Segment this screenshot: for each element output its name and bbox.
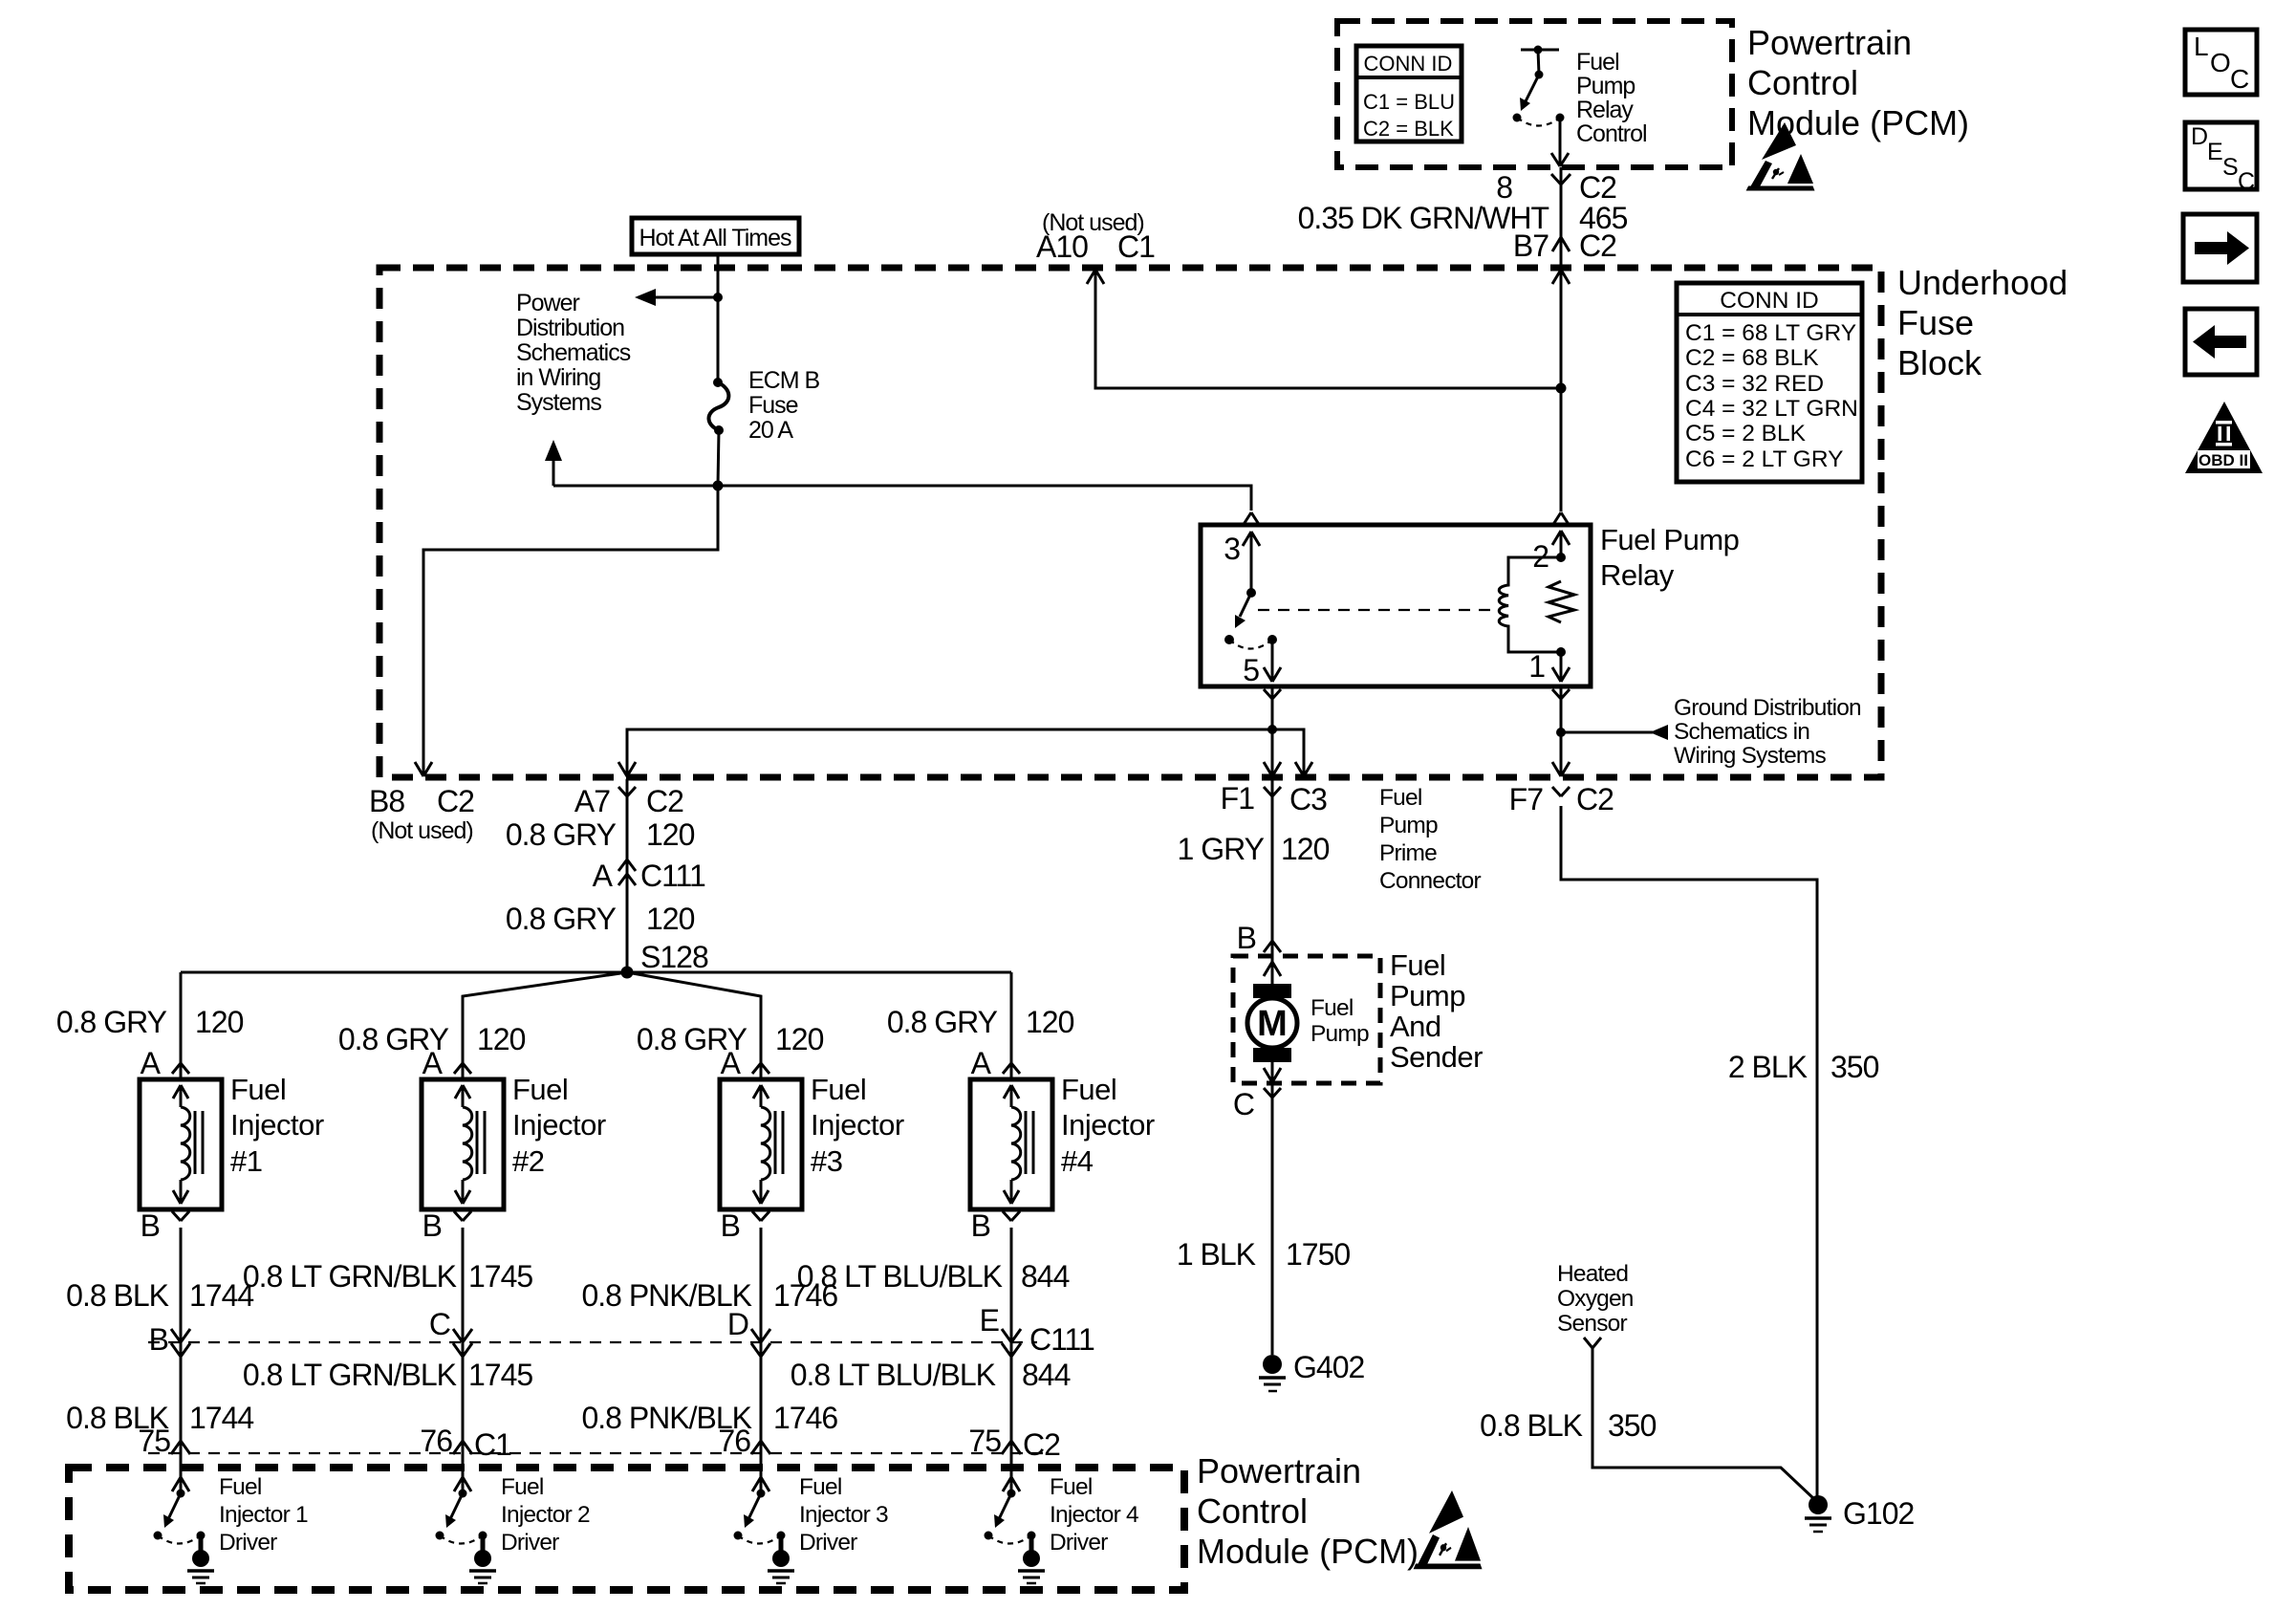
svg-text:C111: C111 bbox=[640, 859, 705, 893]
svg-text:Control: Control bbox=[1576, 120, 1647, 147]
label Fuel Pump (inside box) bbox=[1310, 995, 1369, 1047]
Fuel Pump Relay box bbox=[1201, 525, 1591, 686]
svg-text:Fuel: Fuel bbox=[799, 1474, 841, 1500]
wire oxygen sensor to G102 bbox=[1592, 1348, 1814, 1499]
splice S128 bbox=[621, 967, 634, 979]
svg-text:D: D bbox=[727, 1307, 748, 1341]
svg-text:C3: C3 bbox=[1289, 782, 1327, 816]
ground G102 bbox=[1805, 1495, 1831, 1532]
fuel injector #4 coil bbox=[1004, 1085, 1033, 1204]
arrow at F7 bbox=[1552, 762, 1570, 776]
svg-text:Distribution: Distribution bbox=[516, 315, 624, 341]
svg-text:A: A bbox=[422, 1046, 444, 1080]
svg-text:#3: #3 bbox=[811, 1144, 842, 1178]
svg-text:Driver: Driver bbox=[1050, 1530, 1108, 1556]
note Ground Distribution Schematics in Wiring Systems bbox=[1674, 695, 1861, 769]
label ECM B Fuse 20 A bbox=[748, 367, 820, 444]
label Fuel Pump Relay Control bbox=[1576, 49, 1647, 147]
svg-text:Injector 4: Injector 4 bbox=[1050, 1502, 1138, 1528]
svg-text:Fuel: Fuel bbox=[811, 1073, 866, 1106]
connector Y below pin 5 bbox=[1264, 689, 1281, 699]
svg-text:Fuel: Fuel bbox=[1390, 948, 1445, 982]
connector chevron at PCM pin 76 (x=484) bbox=[453, 1441, 472, 1454]
relay pin 3 bbox=[1224, 532, 1260, 593]
note Fuel Pump Prime Connector bbox=[1379, 785, 1481, 894]
svg-text:#1: #1 bbox=[230, 1144, 262, 1178]
connector Y at F1 bbox=[1264, 787, 1281, 796]
svg-text:B: B bbox=[422, 1208, 442, 1243]
CONN ID table (fuse block) bbox=[1677, 283, 1862, 482]
arrow into PCM (driver 3) bbox=[752, 1477, 769, 1491]
svg-text:B: B bbox=[971, 1208, 990, 1243]
svg-text:And: And bbox=[1390, 1010, 1441, 1043]
svg-text:A10: A10 bbox=[1036, 229, 1088, 264]
svg-text:Relay: Relay bbox=[1600, 558, 1675, 592]
svg-text:76: 76 bbox=[718, 1424, 750, 1458]
svg-text:Fuse: Fuse bbox=[748, 392, 798, 419]
svg-text:Control: Control bbox=[1747, 63, 1858, 102]
svg-text:120: 120 bbox=[775, 1022, 824, 1056]
wire label 1 GRY 120 bbox=[1178, 832, 1330, 866]
svg-text:Driver: Driver bbox=[799, 1530, 857, 1556]
relay switch contacts bbox=[1224, 635, 1277, 649]
wire label 0.8 BLK 350 bbox=[1480, 1408, 1656, 1443]
connector B (injector 4) bbox=[1003, 1211, 1020, 1221]
svg-text:Fuel: Fuel bbox=[512, 1073, 568, 1106]
svg-text:0.8 GRY: 0.8 GRY bbox=[506, 817, 617, 852]
svg-text:0.8 LT GRN/BLK: 0.8 LT GRN/BLK bbox=[243, 1259, 457, 1294]
svg-text:2 BLK: 2 BLK bbox=[1728, 1050, 1808, 1084]
wire pin 1 to F7 bbox=[1560, 686, 1563, 774]
svg-text:0.8 LT GRN/BLK: 0.8 LT GRN/BLK bbox=[243, 1358, 457, 1392]
junction dot F1 feed bbox=[1267, 725, 1277, 734]
svg-text:M: M bbox=[1257, 1004, 1288, 1044]
fuel injector #2 box bbox=[422, 1079, 504, 1209]
svg-text:C1 = 68 LT GRY: C1 = 68 LT GRY bbox=[1685, 320, 1856, 346]
connector chevron at PCM pin 75 (x=1058) bbox=[1002, 1441, 1021, 1454]
arrow into fuse block at B7 bbox=[1552, 270, 1570, 284]
fuel injector #3 box bbox=[720, 1079, 802, 1209]
junction dot below fuse bbox=[713, 481, 724, 491]
arrow at F1 bbox=[1264, 762, 1281, 776]
svg-text:1745: 1745 bbox=[468, 1259, 532, 1294]
svg-text:0.8 GRY: 0.8 GRY bbox=[506, 902, 617, 936]
fuel injector #1 coil bbox=[173, 1085, 203, 1204]
Underhood Fuse Block dashed box bbox=[379, 268, 1881, 777]
svg-text:B7: B7 bbox=[1513, 228, 1549, 263]
connector symbol at relay pin 2 bbox=[1552, 512, 1570, 526]
svg-text:ECM B: ECM B bbox=[748, 367, 820, 394]
connector symbol at relay pin 3 bbox=[1243, 512, 1260, 526]
svg-text:5: 5 bbox=[1243, 653, 1259, 687]
svg-text:(Not used): (Not used) bbox=[371, 817, 473, 844]
svg-text:O: O bbox=[2210, 48, 2231, 77]
relay coil bbox=[1499, 557, 1561, 652]
svg-text:Connector: Connector bbox=[1379, 868, 1481, 894]
wire label 0.8 LT BLU/BLK 844 (upper) bbox=[797, 1259, 1070, 1294]
svg-text:Pump: Pump bbox=[1390, 979, 1465, 1012]
title Powertrain Control Module (PCM) top bbox=[1747, 23, 1969, 142]
label Fuel Injector #4 bbox=[1061, 1073, 1155, 1178]
svg-text:C111: C111 bbox=[1029, 1322, 1094, 1357]
label Fuel Pump Relay bbox=[1600, 523, 1739, 592]
connector A (injector 3) bbox=[752, 1063, 769, 1074]
connector Y at C (fuel pump) bbox=[1264, 1088, 1281, 1098]
wire label 0.8 GRY 120 (injector 4) bbox=[887, 1005, 1074, 1039]
connector Y at oxygen sensor bbox=[1584, 1338, 1601, 1348]
svg-text:Injector: Injector bbox=[512, 1108, 606, 1142]
svg-text:Power: Power bbox=[516, 290, 580, 316]
wire fuel pump to G402 bbox=[1271, 1083, 1274, 1355]
wire F1 to fuel pump bbox=[1271, 779, 1274, 984]
svg-text:0.8 GRY: 0.8 GRY bbox=[887, 1005, 998, 1039]
wire A7 to S128 bbox=[626, 779, 629, 972]
wire label 0.8 GRY 120 (lower) bbox=[506, 902, 695, 936]
svg-text:Module (PCM): Module (PCM) bbox=[1197, 1532, 1419, 1571]
svg-text:A: A bbox=[141, 1046, 162, 1080]
svg-text:C3 = 32 RED: C3 = 32 RED bbox=[1685, 371, 1824, 397]
svg-text:Pump: Pump bbox=[1310, 1021, 1369, 1047]
svg-text:Prime: Prime bbox=[1379, 840, 1437, 866]
svg-text:C2: C2 bbox=[646, 784, 683, 818]
svg-text:L: L bbox=[2194, 32, 2209, 61]
svg-text:75: 75 bbox=[968, 1424, 1001, 1458]
svg-text:B: B bbox=[141, 1208, 160, 1243]
title Powertrain Control Module (PCM) bottom bbox=[1197, 1451, 1419, 1571]
svg-text:1744: 1744 bbox=[189, 1401, 253, 1435]
svg-text:B: B bbox=[1237, 921, 1256, 955]
svg-text:Wiring Systems: Wiring Systems bbox=[1674, 743, 1827, 769]
svg-text:1745: 1745 bbox=[468, 1358, 532, 1392]
arrow B8 bbox=[415, 762, 432, 776]
arrow into PCM (driver 2) bbox=[454, 1477, 471, 1491]
svg-text:S128: S128 bbox=[640, 940, 708, 974]
relay pin 2 bbox=[1532, 531, 1570, 574]
svg-text:1746: 1746 bbox=[773, 1401, 837, 1435]
connector A (injector 1) bbox=[172, 1063, 189, 1074]
relay pin 5 bbox=[1243, 640, 1281, 687]
svg-text:120: 120 bbox=[646, 817, 695, 852]
svg-text:C4 = 32 LT GRN: C4 = 32 LT GRN bbox=[1685, 396, 1858, 422]
wire label 0.8 PNK/BLK 1746 (lower) bbox=[581, 1401, 837, 1435]
svg-text:Oxygen: Oxygen bbox=[1557, 1286, 1634, 1312]
arrow into motor bbox=[1264, 962, 1281, 976]
svg-text:C2: C2 bbox=[1576, 782, 1614, 816]
svg-text:Schematics in: Schematics in bbox=[1674, 719, 1809, 745]
svg-text:E: E bbox=[2207, 139, 2222, 165]
wire label 0.8 BLK 1744 (lower) bbox=[66, 1401, 253, 1435]
svg-text:B8: B8 bbox=[369, 784, 404, 818]
connector A (injector 4) bbox=[1003, 1063, 1020, 1074]
relay resistor bbox=[1549, 581, 1574, 622]
connector B (injector 3) bbox=[752, 1211, 769, 1221]
fuel injector #4 box bbox=[970, 1079, 1052, 1209]
svg-text:Powertrain: Powertrain bbox=[1197, 1451, 1361, 1490]
inline connector A / C111 bbox=[618, 859, 636, 885]
driver 3 ground bbox=[768, 1535, 794, 1583]
wire label 0.8 GRY 120 (injector 3) bbox=[637, 1022, 824, 1056]
svg-text:Injector: Injector bbox=[230, 1108, 324, 1142]
wire hot feed down to fuse bbox=[717, 254, 720, 382]
connector Y below pin 1 bbox=[1552, 689, 1570, 699]
svg-text:844: 844 bbox=[1021, 1259, 1070, 1294]
wire branch to fuel pump prime connector bbox=[1272, 729, 1304, 774]
svg-text:Injector: Injector bbox=[1061, 1108, 1155, 1142]
svg-text:Underhood: Underhood bbox=[1897, 263, 2068, 302]
wire branch to A7 bbox=[627, 729, 1272, 774]
svg-text:C1 = BLU: C1 = BLU bbox=[1363, 90, 1455, 114]
icon DESC box bbox=[2185, 122, 2257, 195]
wire label 1 BLK 1750 bbox=[1177, 1237, 1351, 1272]
label Fuel Pump And Sender bbox=[1390, 948, 1483, 1074]
svg-text:C2: C2 bbox=[1023, 1427, 1060, 1462]
svg-text:Heated: Heated bbox=[1557, 1261, 1628, 1287]
wire injector 1 to PCM bbox=[180, 1228, 183, 1493]
svg-text:#2: #2 bbox=[512, 1144, 544, 1178]
svg-text:Sensor: Sensor bbox=[1557, 1311, 1627, 1337]
svg-text:350: 350 bbox=[1608, 1408, 1657, 1443]
relay switch arm bbox=[1235, 588, 1256, 628]
wire label 0.8 GRY 120 (injector 1) bbox=[56, 1005, 244, 1039]
svg-text:B: B bbox=[721, 1208, 740, 1243]
fuel injector #3 coil bbox=[753, 1085, 783, 1204]
svg-text:C2: C2 bbox=[1579, 228, 1616, 263]
svg-text:8: 8 bbox=[1496, 170, 1512, 205]
note Power Distribution Schematics in Wiring Systems bbox=[516, 290, 631, 416]
connector Y at A7 bbox=[618, 787, 636, 796]
fuel injector #1 box bbox=[140, 1079, 222, 1209]
wire pin 5 to F1 bbox=[1271, 686, 1274, 774]
wire label 0.35 DK GRN/WHT 465 bbox=[1298, 201, 1628, 235]
wire label 0.8 LT BLU/BLK 844 (lower) bbox=[791, 1358, 1071, 1392]
svg-text:A7: A7 bbox=[574, 784, 610, 818]
connector chevrons at C111 (wire D) bbox=[751, 1329, 770, 1357]
svg-text:120: 120 bbox=[1281, 832, 1330, 866]
svg-text:Fuel Pump: Fuel Pump bbox=[1600, 523, 1739, 556]
inline connector C111 dashed line bbox=[148, 1341, 1037, 1343]
driver 2 ground bbox=[469, 1535, 496, 1583]
svg-text:C2: C2 bbox=[1579, 170, 1616, 205]
svg-text:Injector: Injector bbox=[811, 1108, 904, 1142]
note Heated Oxygen Sensor bbox=[1557, 1261, 1634, 1337]
relay linkage dashed line bbox=[1258, 609, 1490, 611]
svg-text:1750: 1750 bbox=[1286, 1237, 1350, 1272]
wire label 0.8 LT GRN/BLK 1745 (upper) bbox=[243, 1259, 533, 1294]
svg-text:Sender: Sender bbox=[1390, 1040, 1483, 1074]
connector symbol B7 bbox=[1552, 237, 1570, 251]
svg-text:1 GRY: 1 GRY bbox=[1178, 832, 1265, 866]
svg-text:120: 120 bbox=[477, 1022, 526, 1056]
svg-text:B: B bbox=[149, 1322, 168, 1357]
fuel injector 1 driver switch bbox=[154, 1490, 206, 1544]
fuel injector 2 driver switch bbox=[436, 1490, 487, 1544]
arrow into PCM (driver 1) bbox=[172, 1477, 189, 1491]
driver 1 ground bbox=[187, 1535, 214, 1583]
ground G402 bbox=[1259, 1355, 1286, 1391]
arrow at A7 bbox=[618, 762, 636, 776]
PCM (bottom) dashed box bbox=[69, 1468, 1184, 1590]
wire S128 to injector 3 bbox=[627, 972, 761, 1079]
label Fuel Injector #3 bbox=[811, 1073, 904, 1178]
svg-text:Block: Block bbox=[1897, 343, 1982, 382]
svg-text:C: C bbox=[2230, 64, 2249, 94]
wire injector 4 to PCM bbox=[1010, 1228, 1013, 1493]
svg-text:C2 = 68 BLK: C2 = 68 BLK bbox=[1685, 345, 1819, 371]
svg-text:C6 = 2 LT GRY: C6 = 2 LT GRY bbox=[1685, 446, 1843, 472]
driver 4 ground bbox=[1018, 1535, 1045, 1583]
junction dot hot feed bbox=[713, 293, 723, 302]
svg-text:F1: F1 bbox=[1221, 781, 1255, 816]
wire below motor with arrow bbox=[1264, 1062, 1281, 1082]
connector Y at pin 8 bbox=[1551, 174, 1570, 185]
svg-text:Ground Distribution: Ground Distribution bbox=[1674, 695, 1861, 721]
svg-text:C1: C1 bbox=[474, 1427, 511, 1462]
svg-text:20 A: 20 A bbox=[748, 417, 793, 444]
wire F7 to G102 (net 350) bbox=[1561, 806, 1817, 1497]
svg-text:Injector 1: Injector 1 bbox=[219, 1502, 308, 1528]
svg-text:Fuel: Fuel bbox=[1050, 1474, 1092, 1500]
svg-text:F7: F7 bbox=[1509, 782, 1544, 816]
svg-text:C: C bbox=[1233, 1087, 1254, 1121]
label Fuel Injector #2 bbox=[512, 1073, 606, 1178]
arrow to power distribution schematics bbox=[635, 289, 718, 306]
connector B (injector 1) bbox=[172, 1211, 189, 1221]
svg-text:Relay: Relay bbox=[1576, 97, 1634, 123]
wire fuse junction to relay pin 3 bbox=[553, 486, 1251, 511]
icon LOC box bbox=[2185, 30, 2257, 95]
connector chevrons at C111 (wire C) bbox=[453, 1329, 472, 1357]
svg-text:C1: C1 bbox=[1117, 229, 1155, 264]
arrow into PCM (driver 4) bbox=[1003, 1477, 1020, 1491]
svg-text:Pump: Pump bbox=[1379, 813, 1438, 838]
svg-text:G402: G402 bbox=[1293, 1350, 1364, 1384]
svg-text:C5 = 2 BLK: C5 = 2 BLK bbox=[1685, 421, 1807, 446]
svg-text:Pump: Pump bbox=[1576, 73, 1635, 99]
svg-text:in Wiring: in Wiring bbox=[516, 364, 600, 391]
connector chevron at PCM pin 75 (x=189) bbox=[171, 1441, 190, 1454]
icon OBD II triangle bbox=[2185, 402, 2263, 473]
label Fuel Injector #1 bbox=[230, 1073, 324, 1178]
svg-text:A: A bbox=[971, 1046, 992, 1080]
svg-text:Fuse: Fuse bbox=[1897, 303, 1974, 342]
arrow up to power distribution (second ref) bbox=[545, 440, 562, 486]
svg-text:1746: 1746 bbox=[773, 1278, 837, 1313]
svg-text:0.8 BLK: 0.8 BLK bbox=[1480, 1408, 1583, 1443]
connector chevrons at C111 (wire B) bbox=[171, 1329, 190, 1357]
svg-text:1: 1 bbox=[1528, 649, 1545, 684]
svg-text:A: A bbox=[721, 1046, 742, 1080]
label Fuel Injector 1 Driver bbox=[219, 1474, 308, 1556]
svg-text:3: 3 bbox=[1224, 532, 1240, 566]
wire label 0.8 PNK/BLK 1746 (upper) bbox=[581, 1278, 837, 1313]
wire B7 to relay pin 2 bbox=[1560, 270, 1563, 511]
svg-text:Powertrain: Powertrain bbox=[1747, 23, 1912, 62]
wire A10 branch to relay feed bbox=[1095, 270, 1561, 388]
svg-text:Driver: Driver bbox=[501, 1530, 559, 1556]
connector A (injector 2) bbox=[454, 1063, 471, 1074]
svg-text:Systems: Systems bbox=[516, 389, 601, 416]
wire label 0.8 LT GRN/BLK 1745 (lower) bbox=[243, 1358, 533, 1392]
junction dot at relay feed bbox=[1556, 383, 1567, 394]
icon back arrow box bbox=[2185, 309, 2257, 375]
label Fuel Injector 3 Driver bbox=[799, 1474, 888, 1556]
PCM connector dashed line bbox=[148, 1452, 1051, 1454]
svg-text:0.35 DK GRN/WHT: 0.35 DK GRN/WHT bbox=[1298, 201, 1549, 235]
svg-text:76: 76 bbox=[420, 1424, 452, 1458]
svg-text:Schematics: Schematics bbox=[516, 339, 631, 366]
svg-text:844: 844 bbox=[1022, 1358, 1071, 1392]
arrow at prime connector bbox=[1295, 762, 1312, 776]
label Fuel Injector 4 Driver bbox=[1050, 1474, 1138, 1556]
svg-text:Fuel: Fuel bbox=[1310, 995, 1353, 1021]
wire S128 to injector 4 bbox=[1010, 972, 1013, 1079]
PCM CONN ID table bbox=[1356, 46, 1462, 141]
svg-text:75: 75 bbox=[138, 1424, 170, 1458]
svg-text:Injector 2: Injector 2 bbox=[501, 1502, 590, 1528]
connector Y at F7 bbox=[1552, 787, 1570, 796]
svg-text:0.8 LT BLU/BLK: 0.8 LT BLU/BLK bbox=[791, 1358, 996, 1392]
svg-text:2: 2 bbox=[1532, 539, 1549, 574]
wire label 0.8 GRY 120 (injector 2) bbox=[338, 1022, 526, 1056]
svg-text:0.8 BLK: 0.8 BLK bbox=[66, 1278, 169, 1313]
arrow A10 not used bbox=[1087, 270, 1104, 284]
svg-text:350: 350 bbox=[1830, 1050, 1879, 1084]
wire injector 2 to PCM bbox=[462, 1228, 465, 1493]
fuel injector 4 driver switch bbox=[985, 1490, 1036, 1544]
fuel injector 3 driver switch bbox=[734, 1490, 786, 1544]
connector symbol B (fuel pump) bbox=[1264, 941, 1281, 952]
icon forward arrow box bbox=[2183, 214, 2257, 282]
svg-text:Fuel: Fuel bbox=[230, 1073, 286, 1106]
S128 bus wire bbox=[181, 971, 1011, 974]
svg-text:OBD II: OBD II bbox=[2199, 451, 2248, 469]
title Underhood Fuse Block bbox=[1897, 263, 2068, 382]
svg-text:Control: Control bbox=[1197, 1491, 1308, 1531]
Fuel Pump And Sender dashed box bbox=[1233, 956, 1380, 1083]
wire net 465 PCM to fuse block bbox=[1560, 167, 1563, 268]
svg-text:Fuel: Fuel bbox=[1576, 49, 1619, 76]
svg-text:Fuel: Fuel bbox=[219, 1474, 261, 1500]
svg-text:A: A bbox=[593, 859, 614, 893]
wire label 2 BLK 350 bbox=[1728, 1050, 1879, 1084]
svg-text:#4: #4 bbox=[1061, 1144, 1094, 1178]
svg-text:E: E bbox=[980, 1303, 999, 1338]
wire fuse to junction bbox=[718, 430, 719, 486]
svg-text:120: 120 bbox=[195, 1005, 244, 1039]
svg-text:1 BLK: 1 BLK bbox=[1177, 1237, 1256, 1272]
fuse ECM B 20 A bbox=[709, 378, 729, 435]
fuel pump relay control switch (in PCM) bbox=[1513, 46, 1570, 167]
svg-text:Fuel: Fuel bbox=[501, 1474, 543, 1500]
ESD symbol (bottom PCM) bbox=[1414, 1490, 1483, 1569]
connector chevron at PCM pin 76 (x=796) bbox=[751, 1441, 770, 1454]
svg-text:Fuel: Fuel bbox=[1061, 1073, 1116, 1106]
wire to B8 (not used) bbox=[423, 486, 718, 774]
ESD symbol (top PCM) bbox=[1746, 122, 1815, 191]
label Fuel Injector 2 Driver bbox=[501, 1474, 590, 1556]
svg-text:1744: 1744 bbox=[189, 1278, 253, 1313]
svg-text:CONN ID: CONN ID bbox=[1720, 288, 1818, 314]
wire label 0.8 GRY 120 (upper) bbox=[506, 817, 695, 852]
svg-text:S: S bbox=[2222, 154, 2238, 181]
wire label 0.8 BLK 1744 (upper) bbox=[66, 1278, 253, 1313]
svg-text:120: 120 bbox=[646, 902, 695, 936]
svg-text:0.8 GRY: 0.8 GRY bbox=[56, 1005, 167, 1039]
svg-text:C: C bbox=[2238, 168, 2255, 195]
svg-text:C2: C2 bbox=[437, 784, 474, 818]
svg-text:Fuel: Fuel bbox=[1379, 785, 1421, 811]
fuel injector #2 coil bbox=[455, 1085, 485, 1204]
